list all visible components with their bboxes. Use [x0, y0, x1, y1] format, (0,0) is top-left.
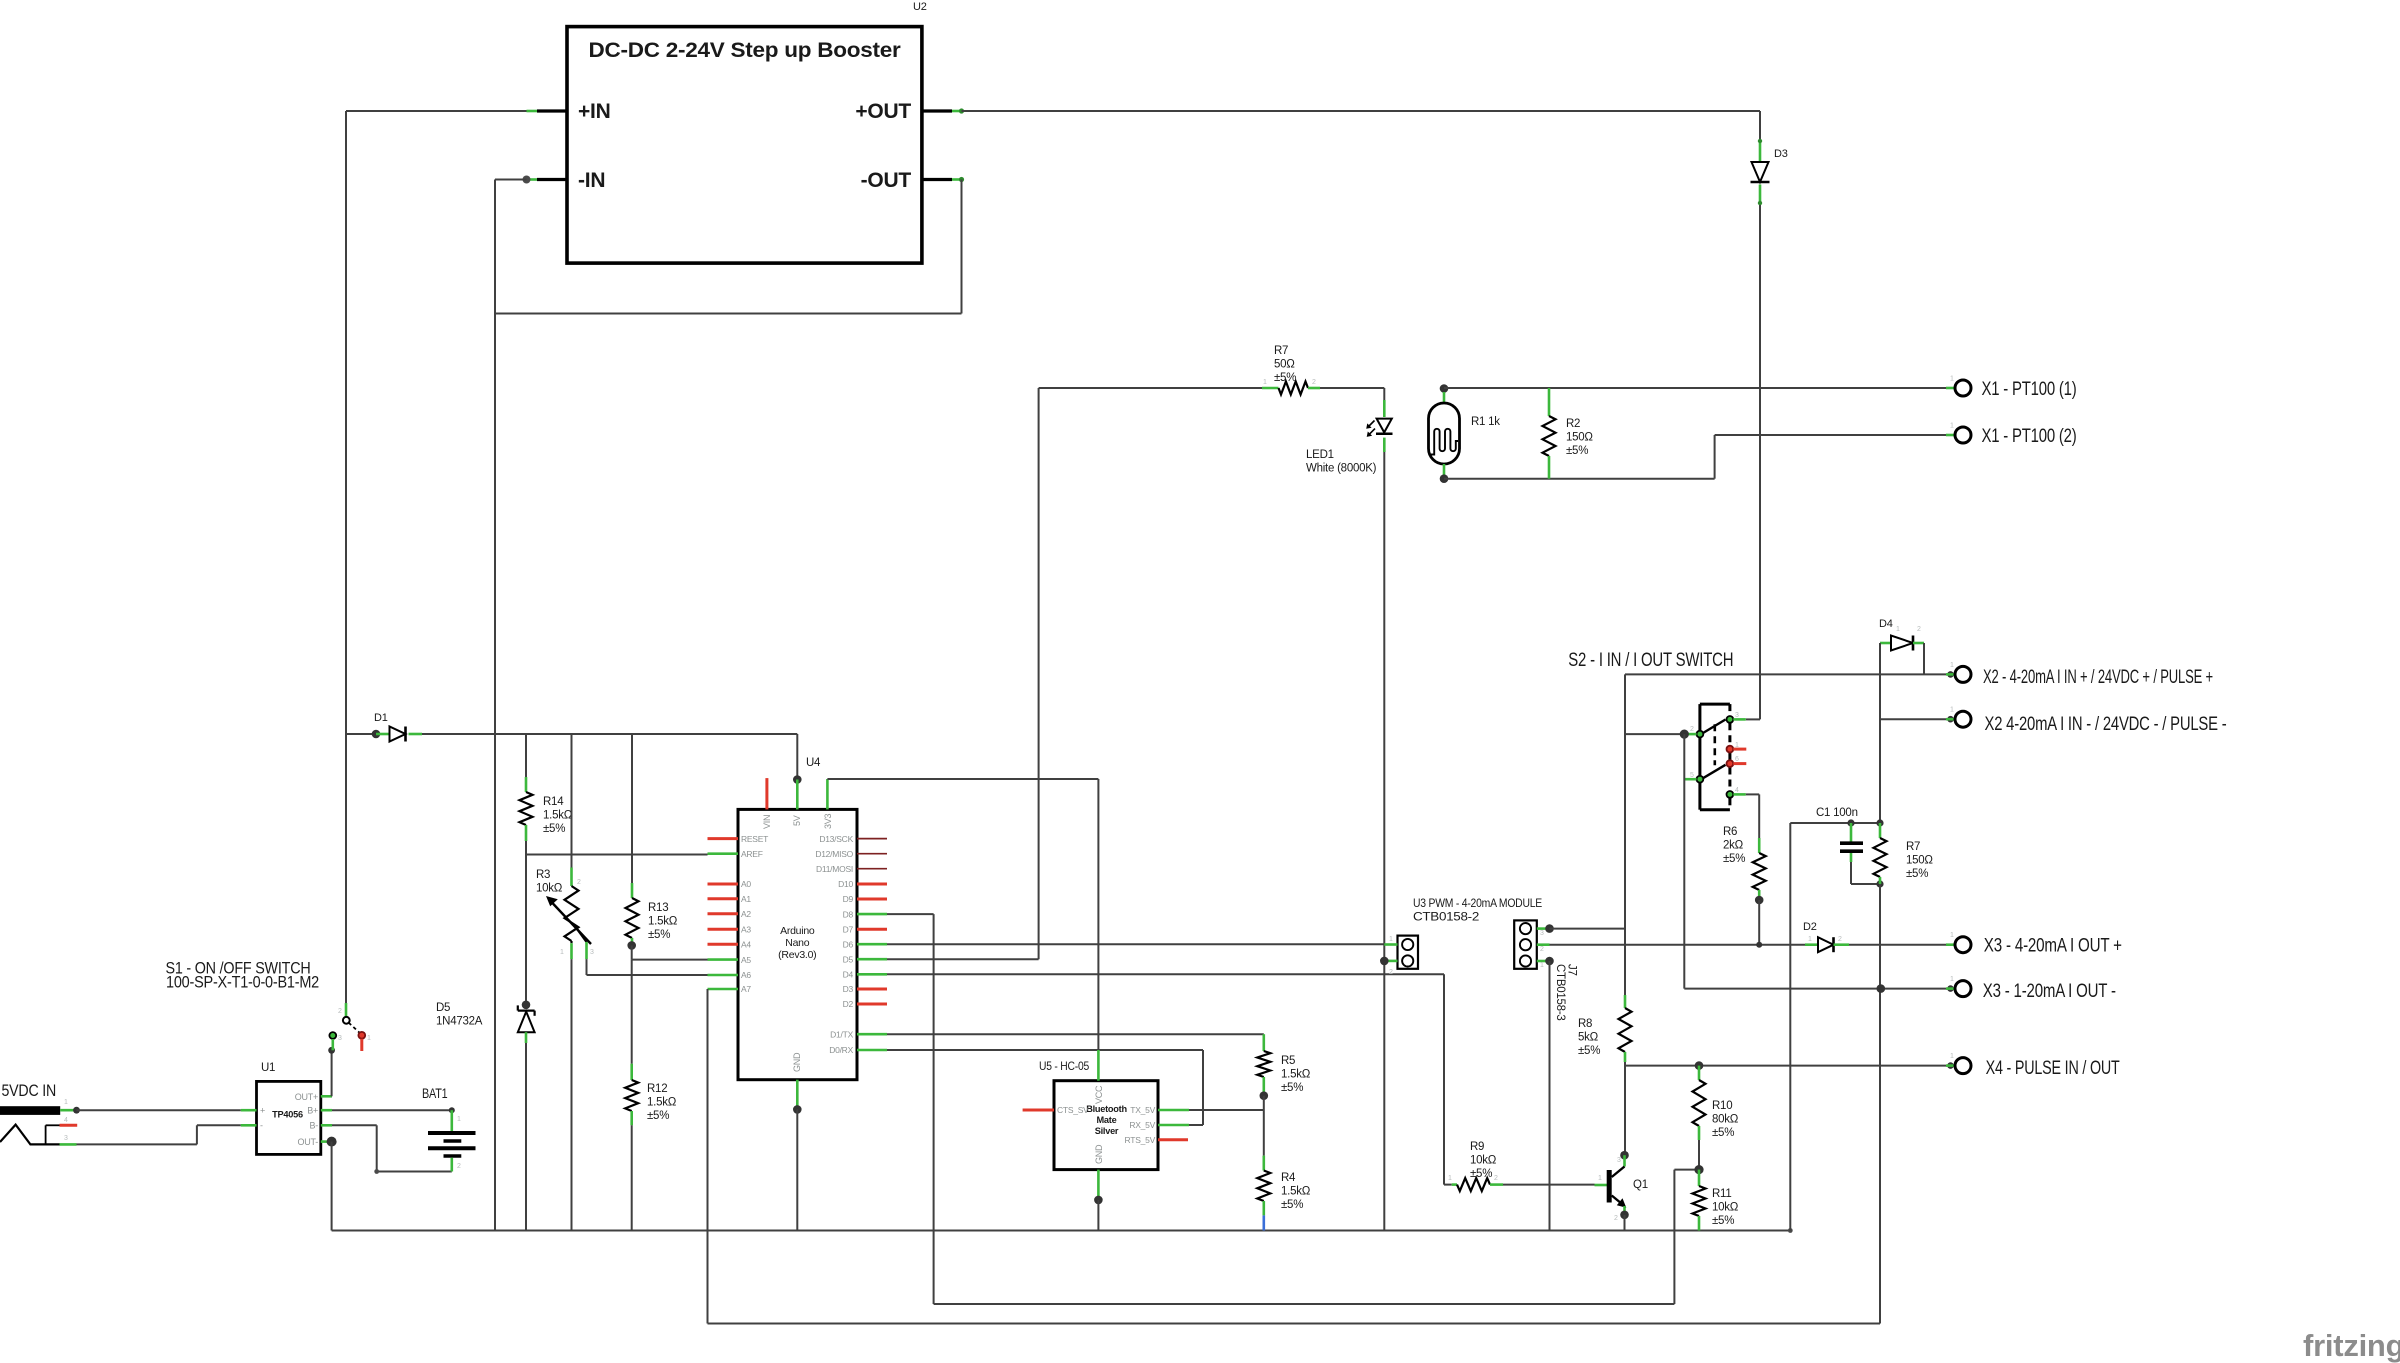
svg-text:±5%: ±5%: [1712, 1127, 1734, 1139]
resistor R11: [1698, 1170, 1701, 1186]
LED LED1: [1383, 400, 1386, 417]
wire Q1 emitter to rail: [1624, 1215, 1626, 1231]
svg-text:2: 2: [1494, 1175, 1498, 1182]
svg-text:3: 3: [1617, 1157, 1621, 1164]
svg-text:White (8000K): White (8000K): [1306, 463, 1377, 475]
svg-text:1: 1: [1950, 1053, 1954, 1060]
junction R10 top: [1695, 1061, 1704, 1070]
svg-text:±5%: ±5%: [1712, 1215, 1734, 1227]
S2 levers: [1703, 720, 1726, 734]
svg-text:1: 1: [1950, 932, 1954, 939]
svg-text:D4: D4: [1879, 618, 1893, 630]
resistor R2: [1548, 388, 1551, 416]
junction J7 pin3: [1545, 924, 1554, 933]
svg-text:DC-DC 2-24V Step up Booster: DC-DC 2-24V Step up Booster: [589, 39, 901, 62]
wire D5 to ground rail: [525, 1043, 527, 1231]
junction C1 top: [1847, 819, 1854, 826]
svg-text:D2: D2: [843, 999, 854, 1009]
svg-text:10kΩ: 10kΩ: [536, 883, 563, 895]
junction R1 top: [1440, 384, 1449, 393]
terminal X3-: [1946, 987, 1955, 990]
svg-text:R9: R9: [1470, 1141, 1484, 1153]
svg-text:10kΩ: 10kΩ: [1712, 1202, 1739, 1214]
wire +OUT to D3: [962, 110, 1761, 112]
svg-text:5V: 5V: [792, 815, 802, 826]
svg-text:1: 1: [1950, 423, 1954, 430]
svg-text:2: 2: [1917, 626, 1921, 633]
svg-text:1: 1: [1263, 379, 1267, 386]
svg-text:RESET: RESET: [741, 834, 768, 844]
svg-text:1: 1: [1950, 707, 1954, 714]
svg-text:4: 4: [64, 1117, 68, 1124]
wire S2 pin2 to X2+ vertical: [1625, 733, 1686, 735]
switch S1: [345, 1003, 348, 1017]
wire X2+ line: [1625, 673, 1955, 675]
potentiometer R3: [565, 886, 579, 941]
svg-text:Q1: Q1: [1633, 1179, 1648, 1191]
svg-text:U1: U1: [261, 1062, 275, 1074]
switch S2: [1700, 703, 1730, 706]
Bluetooth module U5 box: [1054, 1081, 1158, 1170]
terminal X2-: [1946, 718, 1955, 721]
svg-text:1: 1: [1448, 1175, 1452, 1182]
junction X3- / shunt: [1877, 984, 1886, 993]
svg-text:OUT+: OUT+: [295, 1092, 318, 1102]
wire U5 GND to rail: [1097, 1200, 1099, 1231]
resistor R8: [1624, 995, 1627, 1008]
svg-text:R10: R10: [1712, 1100, 1732, 1112]
svg-text:GND: GND: [1094, 1144, 1104, 1164]
junction D5 cathode: [522, 1001, 531, 1010]
wire D3 to S2 pin3: [1759, 205, 1761, 719]
terminal X4: [1946, 1064, 1955, 1067]
wire AREF: [526, 854, 708, 856]
diode D1: [376, 733, 390, 736]
wire OUT+ up to S1: [331, 1050, 333, 1096]
svg-text:±5%: ±5%: [647, 1110, 669, 1122]
resistor R14: [520, 792, 533, 825]
svg-text:B-: B-: [310, 1121, 319, 1131]
junction R10/R11/D8: [1694, 1165, 1703, 1174]
svg-text:BAT1: BAT1: [422, 1085, 448, 1101]
wire jack sleeve to U1 -: [77, 1143, 197, 1145]
svg-text:D11/MOSI: D11/MOSI: [816, 864, 853, 874]
resistor R5: [1257, 1051, 1270, 1077]
wire J7 pin3 to X2+ vertical: [1550, 928, 1626, 930]
svg-text:LED1: LED1: [1306, 449, 1334, 461]
svg-text:2: 2: [1312, 379, 1316, 386]
svg-text:±5%: ±5%: [1274, 372, 1296, 384]
svg-text:6: 6: [1735, 756, 1739, 763]
svg-text:2: 2: [457, 1163, 461, 1170]
junction R5/R4/TX: [1260, 1091, 1269, 1100]
svg-text:CTB0158-3: CTB0158-3: [1554, 964, 1566, 1021]
svg-text:4: 4: [1735, 787, 1739, 794]
svg-text:D7: D7: [843, 924, 854, 934]
wire B- to battery minus: [332, 1124, 377, 1126]
wire 3V3 across: [827, 778, 1098, 780]
resistor R12: [625, 1080, 638, 1111]
junction 5V: [793, 775, 802, 784]
svg-text:Bluetooth: Bluetooth: [1086, 1104, 1127, 1114]
wire X3- line: [1684, 988, 1954, 990]
svg-text:±5%: ±5%: [1281, 1199, 1303, 1211]
wire R1 top to X1 (1): [1444, 387, 1955, 389]
junction R7 bottom: [1876, 880, 1883, 887]
wire R3 wiper to A6: [586, 959, 588, 975]
svg-text:A5: A5: [741, 955, 751, 965]
svg-text:D9: D9: [843, 894, 854, 904]
node -OUT: [959, 177, 964, 182]
svg-text:J7: J7: [1566, 964, 1578, 976]
svg-text:R11: R11: [1712, 1188, 1732, 1200]
junction GND: [793, 1105, 802, 1114]
wire 5V rail to R13: [631, 734, 633, 883]
svg-text:X1 - PT100 (2): X1 - PT100 (2): [1982, 426, 2077, 447]
connector U3: [1398, 936, 1419, 969]
svg-text:B+: B+: [307, 1106, 318, 1116]
wire R7 to LED1: [1320, 387, 1384, 389]
svg-text:X1 - PT100 (1): X1 - PT100 (1): [1982, 379, 2077, 400]
wire D4 anode / X2-: [1879, 643, 1881, 823]
svg-text:GND: GND: [792, 1052, 802, 1072]
svg-text:A6: A6: [741, 970, 751, 980]
svg-text:A3: A3: [741, 924, 751, 934]
resistor R4 lead: [1263, 1156, 1266, 1171]
svg-text:5VDC IN: 5VDC IN: [2, 1082, 57, 1100]
wire R12 to ground rail: [631, 1125, 633, 1230]
svg-text:2: 2: [577, 879, 581, 886]
wire divider node: [1263, 1096, 1265, 1156]
svg-text:R4: R4: [1281, 1172, 1296, 1184]
resistor R2 body: [1543, 416, 1556, 456]
svg-text:2: 2: [1838, 936, 1842, 943]
svg-text:1.5kΩ: 1.5kΩ: [1281, 1069, 1311, 1081]
connector J7: [1514, 920, 1537, 968]
svg-text:3V3: 3V3: [823, 813, 833, 829]
junction OUT+ / S1: [328, 1047, 335, 1054]
junction U3 pin2 / LED line: [1380, 957, 1389, 966]
svg-text:±5%: ±5%: [1566, 445, 1588, 457]
svg-text:±5%: ±5%: [1470, 1168, 1492, 1180]
svg-text:TX_5V: TX_5V: [1130, 1105, 1155, 1115]
svg-text:3: 3: [590, 949, 594, 956]
svg-text:1N4732A: 1N4732A: [436, 1016, 483, 1028]
wire D4 to R9: [887, 973, 1444, 975]
svg-text:-IN: -IN: [578, 169, 605, 192]
svg-text:1: 1: [1950, 976, 1954, 983]
svg-text:D1/TX: D1/TX: [830, 1029, 853, 1039]
svg-text:-OUT: -OUT: [861, 169, 912, 192]
wire TX_5V to divider: [1189, 1109, 1264, 1111]
svg-text:±5%: ±5%: [1578, 1045, 1600, 1057]
wire D0/RX to RX_5V: [887, 1049, 1203, 1051]
wire -OUT return loop: [961, 180, 963, 314]
wire A7 to shunt sense: [707, 989, 709, 1324]
svg-text:R6: R6: [1723, 826, 1737, 838]
svg-text:3: 3: [1540, 930, 1544, 937]
wire 5V rail to R14: [525, 734, 527, 777]
svg-text:1: 1: [1540, 962, 1544, 969]
S2 pin circles: [1727, 716, 1734, 723]
svg-text:D3: D3: [843, 984, 854, 994]
svg-text:2kΩ: 2kΩ: [1723, 840, 1744, 852]
wire C1 bottom node: [1851, 883, 1880, 885]
wire R3 pin1 to ground rail: [571, 959, 573, 1230]
svg-text:50Ω: 50Ω: [1274, 359, 1295, 371]
svg-text:2: 2: [1389, 969, 1393, 976]
wire S2 pin5 down to X3-: [1683, 734, 1685, 989]
photoresistor R1: [1443, 392, 1446, 403]
svg-text:D6: D6: [843, 939, 854, 949]
wire D4 cathode to X2+: [1923, 643, 1925, 674]
svg-text:R7: R7: [1274, 345, 1288, 357]
svg-text:+OUT: +OUT: [855, 100, 911, 123]
svg-text:D10: D10: [838, 879, 853, 889]
wire 5V rail to R3: [571, 734, 573, 868]
svg-text:2: 2: [1614, 1215, 1618, 1222]
wire B+ to battery: [332, 1109, 452, 1111]
DC-DC booster module U2 box: [567, 27, 922, 264]
junction R6/X3+: [1756, 942, 1762, 948]
zener diode D5: [518, 1009, 535, 1011]
svg-text:3: 3: [64, 1135, 68, 1142]
wire D8 to R10/R11 midpoint: [887, 913, 934, 915]
wire R8 to Q1 collector: [1624, 1062, 1626, 1155]
svg-text:AREF: AREF: [741, 849, 763, 859]
junction -IN: [523, 176, 531, 184]
svg-text:VCC: VCC: [1094, 1085, 1104, 1104]
svg-text:D4: D4: [843, 970, 854, 980]
svg-text:R12: R12: [647, 1083, 667, 1095]
svg-text:D1: D1: [374, 712, 388, 724]
Arduino top pins: [765, 778, 768, 809]
svg-text:D13/SCK: D13/SCK: [819, 834, 853, 844]
junction Q1 collector: [1620, 1151, 1629, 1160]
svg-text:2: 2: [1540, 946, 1544, 953]
wire D6 to U3: [887, 943, 1384, 945]
wire C1/R7 top node: [1790, 822, 1880, 824]
svg-text:S2 - I IN / I OUT SWITCH: S2 - I IN / I OUT SWITCH: [1568, 650, 1733, 671]
svg-text:U2: U2: [913, 1, 927, 13]
svg-text:D8: D8: [843, 909, 854, 919]
svg-text:D5: D5: [843, 954, 854, 964]
junction R13/R12/A5: [627, 941, 636, 950]
wire R1 bottom to X1 (2): [1444, 478, 1715, 480]
resistor R6: [1753, 853, 1766, 890]
junction B+: [449, 1107, 455, 1113]
wire X4 line: [1625, 1065, 1955, 1067]
svg-text:-: -: [260, 1121, 263, 1131]
U5 pin leads: [1097, 1050, 1100, 1081]
svg-text:(Rev3.0): (Rev3.0): [778, 949, 816, 961]
svg-text:X2 4-20mA I IN - / 24VDC - / P: X2 4-20mA I IN - / 24VDC - / PULSE -: [1985, 714, 2227, 735]
svg-text:1: 1: [1950, 376, 1954, 383]
Arduino GND lead: [796, 1080, 799, 1110]
junction R7 top: [1876, 819, 1883, 826]
svg-text:D12/MISO: D12/MISO: [815, 849, 853, 859]
svg-text:R3: R3: [536, 869, 550, 881]
wire +IN to S1: [346, 110, 527, 112]
svg-text:1: 1: [560, 949, 564, 956]
wire LED1 cathode down to ground rail: [1383, 452, 1385, 1231]
svg-text:+IN: +IN: [578, 100, 611, 123]
junction D1 anode: [372, 730, 381, 739]
U1 pin leads: [241, 1109, 257, 1112]
wire junction down to R12: [631, 960, 633, 1064]
svg-text:A2: A2: [741, 909, 751, 919]
svg-text:1.5kΩ: 1.5kΩ: [647, 1097, 677, 1109]
svg-text:1: 1: [1808, 936, 1812, 943]
wire node down left branch: [1789, 823, 1791, 1231]
svg-text:A1: A1: [741, 894, 751, 904]
svg-text:±5%: ±5%: [1906, 868, 1928, 880]
svg-text:X2 - 4-20mA I IN + / 24VDC + /: X2 - 4-20mA I IN + / 24VDC + / PULSE +: [1983, 667, 2213, 688]
wire R4 to rail (blue): [1263, 1215, 1266, 1230]
svg-text:RTS_5V: RTS_5V: [1125, 1135, 1156, 1145]
svg-text:A0: A0: [741, 879, 751, 889]
svg-text:2: 2: [338, 1008, 342, 1015]
svg-text:TP4056: TP4056: [272, 1110, 303, 1120]
svg-text:D2: D2: [1803, 921, 1817, 933]
capacitor C1: [1850, 823, 1853, 842]
wire R6 to X3+ line: [1758, 900, 1760, 945]
svg-text:3: 3: [338, 1035, 342, 1042]
junction S2 pin2: [1680, 730, 1689, 739]
svg-text:U4: U4: [806, 757, 821, 769]
wire jack to U1 +: [77, 1109, 241, 1111]
terminal X1-2: [1946, 434, 1955, 437]
svg-text:CTS_SV: CTS_SV: [1057, 1105, 1089, 1115]
svg-text:Nano: Nano: [785, 937, 810, 949]
svg-text:1: 1: [1950, 662, 1954, 669]
barrel jack J1: [0, 1106, 60, 1115]
wire junction to A5: [631, 945, 633, 959]
svg-text:1: 1: [1598, 1175, 1602, 1182]
resistor R9: [1444, 1184, 1452, 1186]
svg-text:150Ω: 150Ω: [1906, 855, 1933, 867]
svg-text:R5: R5: [1281, 1055, 1295, 1067]
wire R7 bottom to X3-: [1879, 884, 1881, 989]
svg-text:1: 1: [64, 1099, 68, 1106]
diode D3: [1759, 140, 1762, 162]
resistor R7 150ohm: [1879, 823, 1882, 838]
svg-text:1: 1: [457, 1116, 461, 1123]
S2 pin leads: [1733, 718, 1746, 721]
svg-text:+: +: [260, 1106, 265, 1116]
svg-text:150Ω: 150Ω: [1566, 432, 1593, 444]
svg-text:1: 1: [1896, 626, 1900, 633]
wire X3+ line: [1550, 944, 1955, 946]
wire -IN down to ground rail: [495, 179, 527, 181]
wire R9 to Q1 base: [1503, 1184, 1595, 1186]
svg-text:A7: A7: [741, 984, 751, 994]
resistor R5 lead: [1263, 1034, 1266, 1051]
svg-text:A4: A4: [741, 939, 751, 949]
junction U5 GND: [1094, 1196, 1103, 1205]
svg-text:1.5kΩ: 1.5kΩ: [543, 810, 573, 822]
svg-text:D3: D3: [1774, 148, 1788, 160]
R3 wiper arrow: [551, 902, 591, 945]
svg-text:±5%: ±5%: [1723, 853, 1745, 865]
svg-text:5kΩ: 5kΩ: [1578, 1032, 1599, 1044]
node +OUT: [959, 108, 964, 113]
svg-text:R14: R14: [543, 796, 564, 808]
battery BAT1: [450, 1110, 453, 1131]
svg-text:U3 PWM - 4-20mA MODULE: U3 PWM - 4-20mA MODULE: [1413, 898, 1543, 910]
junction Q1 emitter: [1620, 1211, 1629, 1220]
svg-text:1.5kΩ: 1.5kΩ: [648, 916, 678, 928]
svg-text:±5%: ±5%: [648, 929, 670, 941]
svg-text:X4 - PULSE IN / OUT: X4 - PULSE IN / OUT: [1986, 1058, 2120, 1079]
svg-text:80kΩ: 80kΩ: [1712, 1114, 1739, 1126]
svg-text:CTB0158-2: CTB0158-2: [1413, 912, 1479, 924]
svg-text:Mate: Mate: [1097, 1115, 1117, 1125]
svg-text:R13: R13: [648, 902, 668, 914]
svg-text:D5: D5: [436, 1002, 450, 1014]
svg-text:R7: R7: [1906, 841, 1920, 853]
junction jack pin1: [73, 1107, 80, 1114]
Arduino Nano U4 box: [738, 809, 857, 1079]
svg-text:100-SP-X-T1-0-0-B1-M2: 100-SP-X-T1-0-0-B1-M2: [166, 973, 319, 992]
svg-text:±5%: ±5%: [1281, 1082, 1303, 1094]
svg-text:U5 - HC-05: U5 - HC-05: [1039, 1059, 1089, 1073]
wire GND to rail: [796, 1109, 798, 1230]
terminal X2+: [1946, 673, 1955, 676]
svg-text:1.5kΩ: 1.5kΩ: [1281, 1186, 1311, 1198]
svg-text:Silver: Silver: [1095, 1126, 1119, 1136]
Arduino left pin leads: [708, 837, 739, 840]
Arduino right pin leads: [857, 838, 887, 840]
LED1 arrows: [1368, 421, 1375, 428]
wire D5 to R7: [887, 958, 1039, 960]
terminal X1-1: [1946, 387, 1955, 390]
charger module U1 TP4056 box: [257, 1081, 321, 1154]
svg-text:R8: R8: [1578, 1018, 1592, 1030]
svg-text:1: 1: [367, 1035, 371, 1042]
junction OUT-: [327, 1137, 337, 1147]
resistor R7 50ohm: [1279, 382, 1309, 395]
svg-text:D0/RX: D0/RX: [829, 1045, 853, 1055]
svg-text:VIN: VIN: [762, 815, 772, 829]
svg-text:2: 2: [1690, 726, 1694, 733]
svg-text:R1 1k: R1 1k: [1471, 416, 1500, 428]
resistor R13: [626, 898, 639, 938]
svg-text:Arduino: Arduino: [780, 925, 815, 937]
junction R1 bottom: [1440, 474, 1449, 483]
svg-text:X3 - 4-20mA I OUT +: X3 - 4-20mA I OUT +: [1984, 936, 2122, 957]
svg-text:10kΩ: 10kΩ: [1470, 1155, 1497, 1167]
wire battery+ branch to D1: [346, 733, 376, 735]
wire D1/TX to R5: [887, 1033, 1264, 1035]
wire D1 to Arduino 5V: [422, 733, 797, 735]
wire R14 to AREF and D5: [525, 841, 527, 1005]
svg-text:R2: R2: [1566, 418, 1580, 430]
svg-text:3: 3: [1735, 712, 1739, 719]
junction J7 pin1: [1545, 957, 1554, 966]
svg-text:±5%: ±5%: [543, 823, 565, 835]
junction R6 bottom: [1755, 896, 1764, 905]
wire S2 pin4 to R6: [1746, 793, 1759, 795]
svg-text:fritzing: fritzing: [2303, 1328, 2400, 1363]
svg-text:OUT-: OUT-: [298, 1137, 319, 1147]
svg-text:RX_5V: RX_5V: [1129, 1120, 1155, 1130]
wire J7 pin1 to ground rail: [1549, 961, 1551, 1231]
ground rail wire: [332, 1230, 1791, 1232]
svg-text:C1 100n: C1 100n: [1816, 807, 1858, 819]
terminal X3+: [1946, 943, 1955, 946]
wire OUT- down to ground rail: [331, 1142, 333, 1231]
